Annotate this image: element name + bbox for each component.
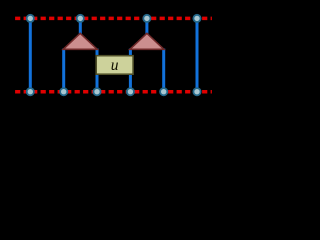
svg-text:u: u	[111, 57, 119, 74]
